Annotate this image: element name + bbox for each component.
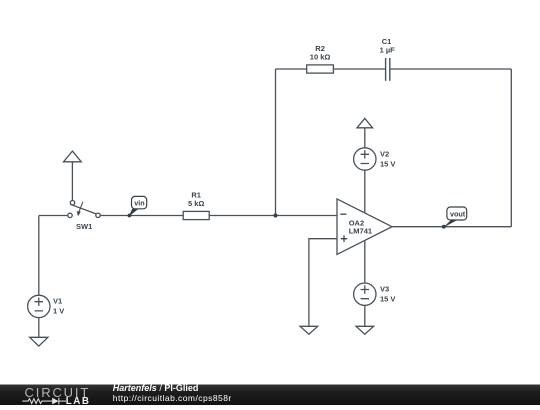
label C1 value: [380, 37, 396, 55]
node vout label: [442, 207, 467, 229]
voltage source V2: [354, 148, 376, 170]
svg-text:V1: V1: [53, 296, 62, 305]
wire V3 to ground: [364, 305, 366, 326]
label V3 value: [380, 285, 395, 304]
voltage source V3: [354, 283, 376, 305]
switch SW1: [68, 201, 100, 218]
svg-text:15 V: 15 V: [380, 160, 395, 169]
voltage source V1: [28, 295, 50, 317]
op-amp OA2 triangle: [337, 199, 392, 255]
svg-text:10 kΩ: 10 kΩ: [310, 52, 331, 61]
svg-text:Hartenfels / PI-Glied: Hartenfels / PI-Glied: [113, 383, 199, 393]
CircuitLab logo: wire with resistor and diode: [22, 398, 66, 405]
wire V2 to op-amp V+ pin: [364, 170, 366, 213]
svg-text:LAB: LAB: [66, 396, 91, 405]
resistor R1: [183, 211, 209, 219]
svg-text:V3: V3: [380, 285, 389, 294]
svg-text:1 V: 1 V: [53, 306, 64, 315]
svg-text:SW1: SW1: [76, 222, 92, 231]
wire vin row: R1 to op-amp inverting input: [209, 215, 337, 217]
ground (non-inverting input): [300, 326, 318, 334]
svg-text:vout: vout: [450, 210, 466, 219]
wire top row: R2 to C1: [333, 68, 385, 70]
svg-text:5 kΩ: 5 kΩ: [188, 199, 204, 208]
wire op-amp V- pin to V3: [364, 241, 366, 284]
svg-text:V2: V2: [380, 150, 389, 159]
svg-text:vin: vin: [134, 199, 144, 208]
resistor R2: [307, 65, 334, 73]
svg-text:15 V: 15 V: [380, 295, 395, 304]
wire top row: left vertical to R2: [276, 68, 307, 70]
wire feedback left vertical: [275, 69, 277, 216]
wire vin row: V1 corner to SW1 left contact: [39, 215, 68, 217]
label OA2 LM741: [349, 218, 372, 235]
wire top row: C1 to right vertical: [390, 68, 512, 70]
wire right vertical (feedback to output): [510, 69, 512, 227]
label V2 value: [380, 150, 395, 169]
ground (below V3): [356, 326, 374, 334]
terminal flag (up arrow above V2): [357, 118, 373, 147]
op-amp inverting marker: [340, 213, 346, 215]
label R1 value: [188, 191, 204, 208]
junction dot at vin node: [273, 213, 277, 217]
wire vin row: SW1 right contact to R1: [100, 215, 183, 217]
wire V1 branch vertical: [38, 216, 40, 296]
wire non-inverting input: [309, 239, 337, 327]
terminal flag (up arrow above SW1): [64, 151, 82, 200]
wire V1 to ground: [38, 318, 40, 338]
svg-text:LM741: LM741: [349, 227, 372, 236]
capacitor C1: [386, 58, 390, 81]
svg-text:1 µF: 1 µF: [380, 46, 396, 55]
op-amp non-inverting marker: [341, 235, 348, 242]
wire op-amp output: [392, 226, 511, 228]
label R2 value: [310, 44, 331, 61]
ground (below V1): [30, 337, 48, 346]
footer bar: [0, 385, 540, 406]
node vin label: [127, 196, 146, 217]
label V1 value: [53, 296, 64, 315]
svg-text:http://circuitlab.com/cps858r: http://circuitlab.com/cps858r: [113, 393, 232, 403]
